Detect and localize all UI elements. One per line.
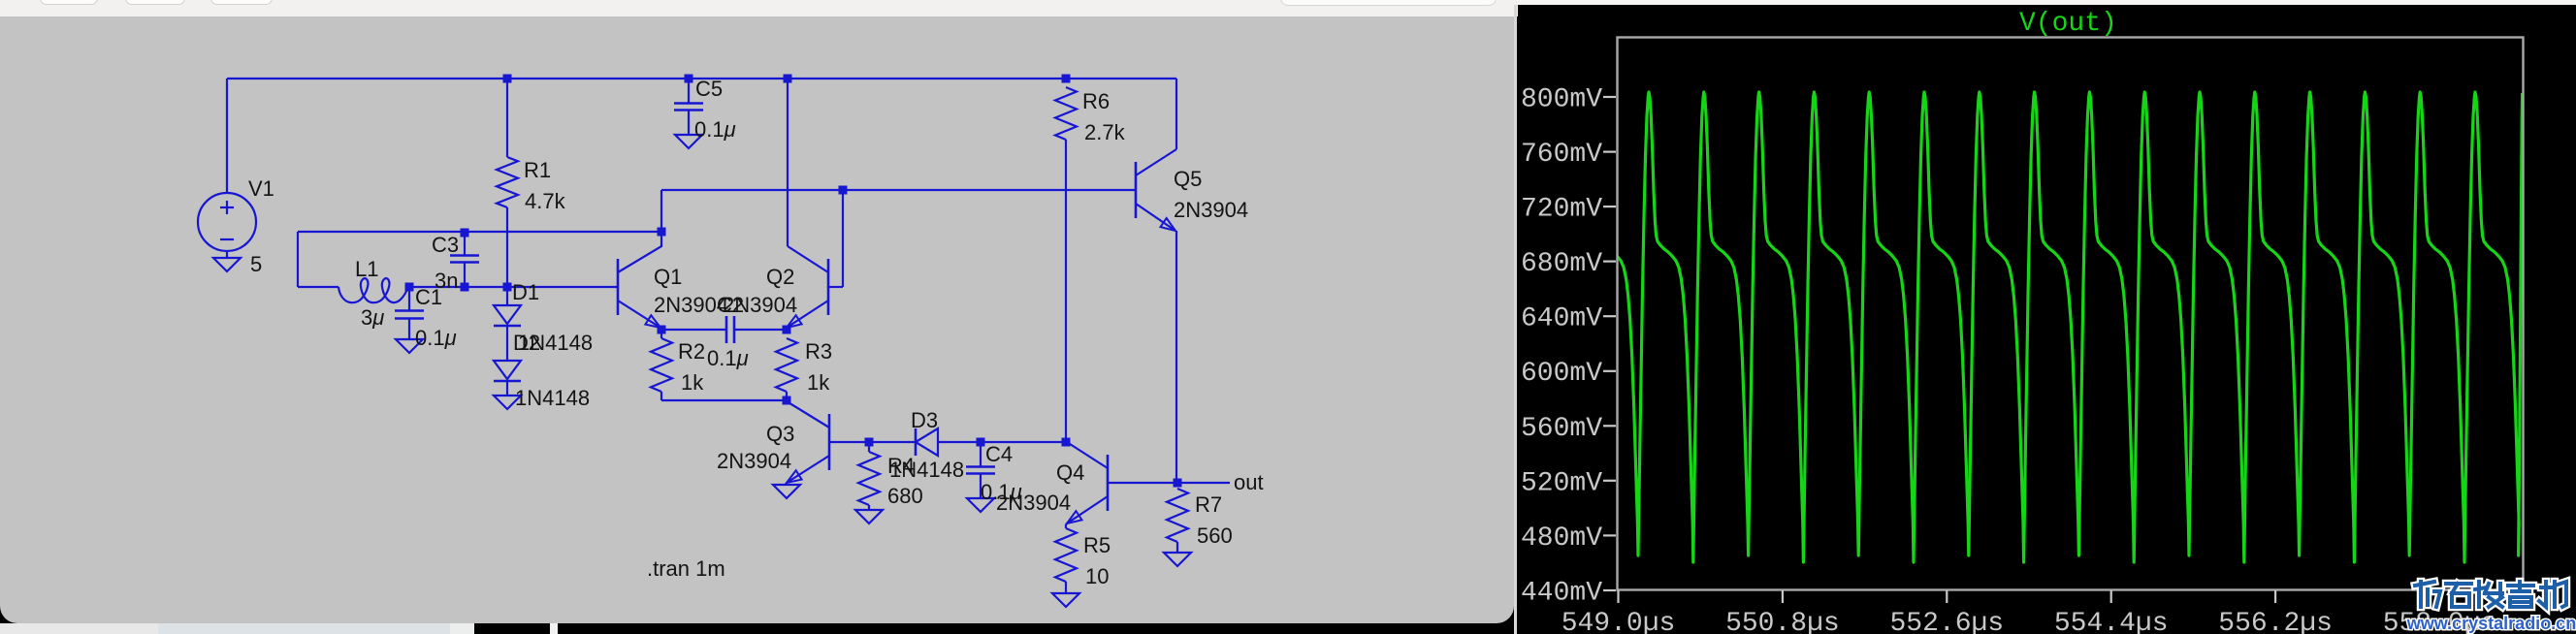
bottom strip light	[450, 623, 474, 634]
svg-text:C5: C5	[695, 77, 723, 101]
svg-text:760mV: 760mV	[1521, 140, 1602, 170]
wire Q2 collector	[787, 79, 789, 246]
svg-text:2N3904: 2N3904	[1174, 198, 1248, 222]
y axis ticks	[1603, 96, 1616, 98]
ground under V1	[213, 258, 241, 271]
transistor Q5 base bar	[1135, 162, 1138, 218]
svg-text:C3: C3	[432, 233, 459, 257]
wire C3 bottom	[464, 263, 466, 287]
resistor R4	[858, 452, 880, 505]
svg-text:1N4148: 1N4148	[889, 458, 964, 482]
wire R7 bottom	[1176, 542, 1178, 553]
wire D1 to D2	[506, 326, 508, 361]
node junction L1/C1	[405, 283, 414, 292]
svg-text:600mV: 600mV	[1521, 359, 1602, 389]
svg-text:V(out): V(out)	[2019, 9, 2117, 39]
resistor R3	[776, 338, 797, 392]
toolbar url field	[1280, 0, 1497, 6]
diode D1	[494, 305, 521, 324]
node junction C3 top	[461, 229, 469, 238]
resistor R6	[1055, 87, 1077, 140]
ground under Q3 emitter	[773, 485, 800, 498]
resistor R1	[497, 157, 518, 207]
resistor R7	[1167, 489, 1188, 542]
svg-text:560: 560	[1197, 523, 1233, 548]
svg-text:3n: 3n	[435, 269, 458, 293]
node junction out	[1174, 479, 1182, 488]
wire top supply rail	[227, 78, 1176, 79]
transistor Q3 base bar	[828, 414, 831, 470]
wire R5 bottom	[1065, 582, 1067, 593]
waveform trace V(out)	[1601, 92, 2523, 562]
svg-text:520mV: 520mV	[1521, 468, 1602, 498]
wire Q4 emitter to R5	[1065, 524, 1067, 528]
wire Q5 collector from rail	[1175, 79, 1177, 149]
node junction R1 top	[503, 75, 512, 83]
wire upper loop horizontal	[298, 231, 661, 233]
voltage source V1	[198, 193, 256, 251]
capacitor C5	[674, 102, 703, 105]
wire Q5 emitter down	[1175, 231, 1177, 483]
transistor Q1 collector lead	[618, 232, 661, 272]
node junction R3 bottom	[783, 396, 791, 405]
capacitor C2 right wire	[734, 329, 787, 331]
svg-text:0.1μ: 0.1μ	[707, 346, 749, 370]
bottom strip blue-grey	[158, 623, 450, 634]
transistor Q1 emitter lead	[618, 301, 661, 330]
svg-text:2.7k: 2.7k	[1084, 120, 1126, 144]
svg-text:720mV: 720mV	[1521, 195, 1602, 225]
wire R2 bottom	[660, 392, 662, 400]
transistor Q2 base bar	[827, 259, 830, 315]
wire D1 top	[506, 287, 508, 305]
resistor R5	[1055, 528, 1077, 582]
toolbar strip of front window	[0, 0, 1518, 16]
node junction C4 top	[977, 438, 985, 447]
wire V1 to ground	[226, 251, 228, 258]
transistor Q2 collector lead	[788, 246, 828, 272]
node junction Q2 collector	[784, 75, 792, 83]
node junction Q1 collector	[658, 228, 666, 237]
transistor Q4 emitter arrow	[1067, 511, 1082, 523]
svg-text:.tran 1m: .tran 1m	[647, 556, 725, 581]
transistor Q3 collector lead	[787, 400, 829, 428]
svg-text:R1: R1	[524, 158, 551, 182]
ground under C4	[967, 498, 994, 512]
transistor Q1 emitter arrow	[645, 315, 660, 328]
ground under R5	[1052, 593, 1079, 607]
wire Q1 collector to cross-couple	[660, 190, 662, 232]
svg-text:V1: V1	[248, 176, 274, 201]
svg-text:D3: D3	[911, 408, 938, 432]
node junction R6 bottom / Q4 collector	[1062, 438, 1071, 447]
node junction Q2 emitter	[783, 326, 791, 334]
svg-text:5: 5	[250, 252, 262, 276]
wire R1 top	[506, 79, 508, 157]
wire R4 top	[868, 442, 870, 452]
wire L1 junction to Q1 base run	[409, 286, 618, 288]
capacitor C2	[725, 316, 728, 343]
node junction R6 top	[1062, 75, 1071, 83]
wire D3 to C4	[938, 441, 1066, 443]
svg-text:Q4: Q4	[1056, 460, 1084, 485]
svg-text:out: out	[1234, 470, 1264, 494]
svg-text:L1: L1	[355, 257, 378, 281]
svg-text:556.2µs: 556.2µs	[2218, 609, 2333, 634]
wire D2 to ground	[506, 381, 508, 396]
toolbar strip right part above plot window	[1518, 0, 2576, 5]
svg-text:560mV: 560mV	[1521, 414, 1602, 444]
divider between windows	[1514, 5, 1517, 634]
svg-text:1k: 1k	[681, 370, 704, 395]
inductor L1	[338, 278, 408, 302]
svg-text:549.0µs: 549.0µs	[1562, 609, 1676, 634]
svg-text:R5: R5	[1083, 533, 1111, 557]
capacitor C3	[450, 254, 479, 257]
svg-text:480mV: 480mV	[1521, 523, 1602, 554]
transistor Q3 emitter lead	[787, 456, 829, 483]
wire upper loop vertical	[297, 232, 299, 287]
wire C3 top	[464, 233, 466, 255]
plot border	[1618, 38, 2524, 590]
wire Q2 base tap down	[842, 190, 844, 287]
svg-text:R2: R2	[678, 339, 705, 364]
wire R4 bottom	[868, 505, 870, 510]
wire to out label	[1177, 482, 1230, 484]
wire Q4 base to out node	[1108, 482, 1177, 484]
svg-text:552.6µs: 552.6µs	[1889, 609, 2004, 634]
transistor Q4 base bar	[1107, 455, 1110, 511]
ground under R7	[1164, 553, 1191, 566]
svg-text:554.4µs: 554.4µs	[2054, 609, 2169, 634]
capacitor C1 stem	[408, 287, 410, 310]
svg-text:0.1μ: 0.1μ	[694, 117, 736, 142]
svg-text:2N3904: 2N3904	[723, 293, 797, 317]
svg-text:800mV: 800mV	[1521, 85, 1602, 115]
wire R2 to R3 bottom	[661, 399, 787, 401]
svg-text:C4: C4	[985, 442, 1013, 466]
watermark logo	[2415, 582, 2566, 607]
wire R6 down long	[1065, 140, 1067, 442]
ground under C1	[396, 339, 423, 353]
wire V1 to rail	[226, 79, 228, 193]
svg-text:680: 680	[887, 484, 923, 508]
svg-text:0.1μ: 0.1μ	[415, 326, 457, 350]
schematic window	[0, 16, 1514, 623]
svg-text:10: 10	[1085, 564, 1109, 588]
transistor Q1 base bar	[617, 259, 620, 315]
svg-text:Q5: Q5	[1174, 167, 1202, 191]
capacitor C1	[395, 309, 424, 312]
svg-text:R3: R3	[805, 339, 832, 364]
svg-text:R7: R7	[1195, 492, 1222, 517]
bottom strip left	[0, 623, 158, 634]
svg-text:4.7k: 4.7k	[525, 189, 566, 213]
diode D3	[916, 428, 938, 456]
transistor Q5 emitter arrow	[1161, 218, 1176, 231]
node junction C3 bottom	[461, 283, 469, 292]
wire C1 to ground	[408, 319, 410, 339]
wire to L1	[298, 286, 338, 288]
node junction Q2 base tap	[839, 186, 848, 195]
wire C5 to ground	[688, 111, 690, 135]
svg-text:1N4148: 1N4148	[515, 386, 590, 410]
resistor R2	[651, 338, 672, 392]
svg-text:3μ: 3μ	[361, 305, 384, 330]
transistor Q5 collector lead	[1136, 149, 1176, 175]
ground under R4	[855, 510, 883, 523]
svg-text:640mV: 640mV	[1521, 304, 1602, 334]
diode D2	[494, 361, 521, 379]
node junction Q1 emitter	[658, 326, 666, 334]
node junction C5 top	[685, 75, 693, 83]
wire C4 to ground	[980, 474, 982, 498]
ground under C5	[675, 135, 702, 148]
transistor Q5 emitter lead	[1136, 204, 1175, 231]
transistor Q2 emitter lead	[787, 301, 828, 330]
svg-text:R6: R6	[1082, 89, 1110, 113]
wire cross-couple to Q5 base	[661, 189, 1136, 191]
capacitor C4	[966, 465, 995, 468]
svg-text:550.8µs: 550.8µs	[1725, 609, 1840, 634]
wire Q3 base to D3	[829, 441, 916, 443]
svg-text:2N3904: 2N3904	[996, 491, 1071, 515]
ground under D2	[494, 396, 521, 409]
svg-text:2N3904: 2N3904	[717, 449, 791, 473]
wire R2 top	[660, 330, 662, 338]
svg-text:Q2: Q2	[766, 265, 794, 289]
transistor Q4 emitter lead	[1066, 496, 1108, 524]
node junction D1 top	[503, 283, 512, 292]
wire R1 to D1	[506, 207, 508, 287]
transistor Q2 emitter arrow	[787, 315, 802, 328]
toolbar button 2	[125, 0, 185, 5]
toolbar button 1	[40, 0, 98, 5]
svg-text:680mV: 680mV	[1521, 249, 1602, 279]
x axis ticks	[1617, 590, 1619, 603]
node junction R4 top	[865, 438, 874, 447]
transistor Q4 collector lead	[1067, 442, 1108, 468]
toolbar button 3	[210, 0, 273, 5]
svg-text:440mV: 440mV	[1521, 579, 1602, 609]
wire C4 top	[980, 442, 982, 466]
wire Q2 base	[828, 286, 843, 288]
svg-text:D2: D2	[513, 331, 540, 355]
wire R3 bottom	[786, 392, 788, 400]
bottom strip white divider	[550, 623, 558, 634]
wire C5 top	[688, 79, 690, 103]
svg-text:Q3: Q3	[766, 422, 794, 446]
svg-text:1k: 1k	[807, 370, 830, 395]
transistor Q3 emitter arrow	[787, 470, 802, 483]
svg-text:D1: D1	[512, 280, 539, 304]
capacitor C2 left wire	[661, 329, 726, 331]
svg-text:Q1: Q1	[654, 265, 682, 289]
svg-text:www.crystalradio.cn: www.crystalradio.cn	[2406, 614, 2576, 633]
